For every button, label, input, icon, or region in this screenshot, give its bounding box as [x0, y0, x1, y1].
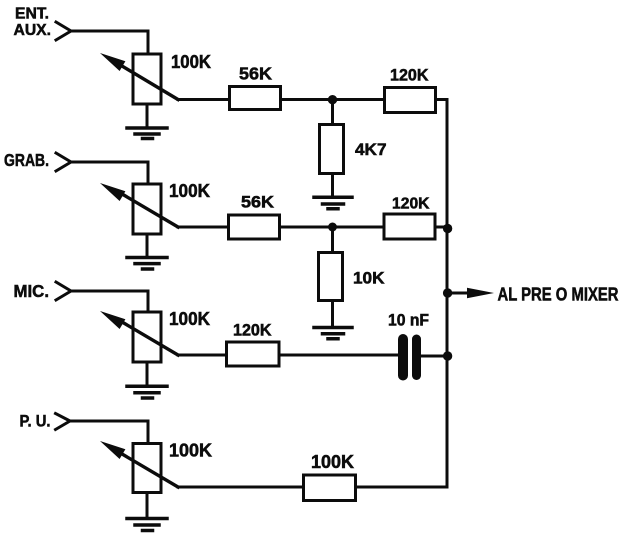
svg-text:4K7: 4K7 — [355, 141, 387, 159]
svg-text:10K: 10K — [353, 270, 385, 288]
svg-text:120K: 120K — [233, 322, 272, 340]
svg-text:MIC.: MIC. — [14, 281, 50, 301]
svg-text:100K: 100K — [311, 452, 354, 472]
svg-text:120K: 120K — [390, 66, 429, 85]
svg-text:56K: 56K — [241, 194, 274, 212]
svg-text:56K: 56K — [239, 64, 272, 84]
svg-text:P. U.: P. U. — [20, 412, 51, 431]
svg-text:120K: 120K — [392, 196, 430, 213]
svg-text:100K: 100K — [169, 181, 210, 201]
svg-text:100K: 100K — [169, 441, 212, 461]
svg-text:GRAB.: GRAB. — [4, 150, 49, 170]
svg-text:AUX.: AUX. — [14, 22, 52, 39]
svg-text:ENT.: ENT. — [15, 6, 49, 23]
svg-text:100K: 100K — [171, 52, 211, 72]
svg-text:100K: 100K — [169, 309, 210, 329]
svg-text:AL PRE O MIXER: AL PRE O MIXER — [498, 285, 619, 305]
svg-text:10 nF: 10 nF — [388, 311, 429, 330]
